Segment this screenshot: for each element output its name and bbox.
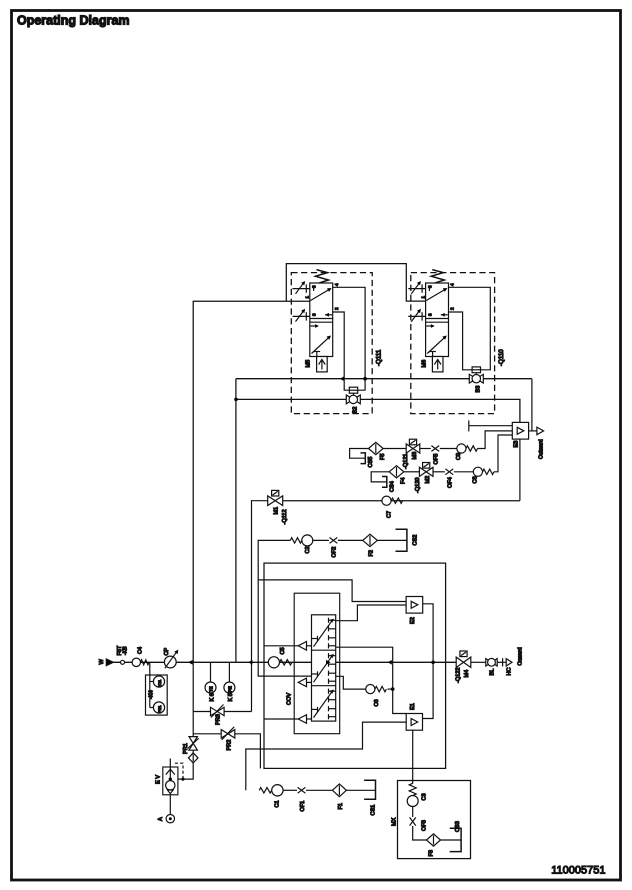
wire BL to HC [497,661,511,663]
exhaust E3 box [512,422,528,439]
pilot valve M6 body [426,283,449,357]
check valve C2 [290,538,302,543]
wire C2 row feed trunk [258,540,311,676]
junction C6 output [388,688,393,690]
M5 internals bottom cell [316,352,318,357]
wire C1 row to E1 feed [246,722,406,790]
solenoid valve M2 [423,463,430,469]
svg-text:PR2: PR2 [226,740,232,751]
svg-text:CS4: CS4 [389,481,395,492]
wire Q110 port 4 [448,287,490,370]
strainer FST -KB [121,660,125,664]
svg-text:F4: F4 [401,477,407,484]
orifice OF4 [445,469,453,475]
wire trunk buses to supply [235,379,237,663]
svg-text:OF3: OF3 [422,820,428,831]
wire OF1 to F1 [306,789,332,791]
svg-text:HC: HC [506,667,512,675]
wire spool to exhaust E2 second [336,605,406,621]
svg-text:5: 5 [427,285,432,288]
wire Q111 port 4 [333,287,365,390]
exhaust E2 box [406,597,423,614]
wire spool to C6 [336,676,366,689]
svg-text:BL: BL [489,669,495,676]
wire OF3 to F3 [413,826,427,840]
ball valve BL [486,659,497,666]
svg-text:Operating Diagram: Operating Diagram [17,14,130,28]
junction collector on supply [431,661,435,665]
svg-text:M5: M5 [306,360,312,368]
wire spool port to E1 top [336,647,407,713]
orifice OF1 [298,787,306,793]
svg-text:E V: E V [156,775,162,784]
wire C9 to E3 [478,431,513,449]
silencer CS2 [396,529,407,551]
svg-text:C9: C9 [456,453,462,460]
wire M4 to BL [471,661,486,663]
ball valve B2 bonnet [349,387,357,393]
svg-text:CS3: CS3 [455,821,461,832]
exhaust E1 box [406,714,422,731]
wire F1 to CS1 [346,789,375,791]
wire into EV [178,763,193,779]
valve unit -Q110 dashed enclosure [411,273,495,414]
wire OF5 to C9 [440,448,457,450]
svg-text:4: 4 [450,283,455,286]
M6 internals top cell [428,286,430,291]
M6 internals bottom cell [432,352,434,357]
svg-text:C1: C1 [274,800,280,807]
svg-text:3: 3 [427,313,432,316]
svg-text:OF2: OF2 [332,547,338,558]
port 5 throttle symbol Q111 [293,288,310,290]
svg-text:-KB: -KB [122,646,128,655]
svg-text:C8: C8 [472,476,478,483]
wire F5 to M3 [383,448,406,450]
port 3 throttle symbol Q111 [293,315,310,317]
svg-text:COV: COV [286,693,292,705]
wire C1 to OF1 [283,789,297,791]
wire PR2 to drain header [235,734,261,769]
transmitter box -K4 [146,675,168,715]
inlet W [106,659,113,666]
svg-text:CS1: CS1 [370,805,376,816]
EV pilot dashed line [175,763,183,777]
wire M3 to OF5 [420,448,431,450]
svg-text:F5: F5 [380,453,386,460]
filter F4 [389,466,404,478]
svg-text:TE1: TE1 [157,680,162,687]
svg-text:F3: F3 [428,850,434,857]
svg-text:110005751: 110005751 [551,865,605,877]
svg-text:OF1: OF1 [300,801,306,812]
solenoid valve M4 [460,651,467,657]
svg-text:PE1: PE1 [157,705,162,712]
sensor TE K6 [210,662,212,682]
svg-text:PR1: PR1 [183,743,189,754]
wire branch to exhaust E2 [258,580,406,602]
outward vent symbol [537,427,544,435]
check valve C5 [268,657,279,668]
M6 internals mid cell [426,318,449,320]
wire supply riser to pilot valves feed [193,301,310,662]
silencer CS4 [371,472,389,482]
wire C2 to OF2 [313,539,329,541]
wire bus A [236,378,532,380]
wire E1 to MX [412,730,414,783]
silencer CS1 [364,780,375,799]
svg-text:E1: E1 [410,703,416,710]
valve unit -Q111 dashed enclosure [291,273,372,414]
sensor PE1 [153,702,164,713]
wire Q110 port 2 [448,312,472,370]
wire vent header C7 line [283,500,520,502]
svg-text:M1: M1 [273,507,279,515]
filter F1 [332,784,346,797]
spring M6 valve [431,270,444,284]
wire M1 feed trunk [252,501,268,712]
pilot valve M5 body [310,283,333,357]
svg-text:C6: C6 [374,699,380,706]
filter F3 [427,834,441,846]
solenoid pilot M6 [432,357,443,372]
wire OF4 to C8 [454,471,474,473]
solenoid valve M1 [272,490,279,496]
svg-text:4: 4 [334,283,339,286]
svg-text:CS2: CS2 [413,535,419,546]
junction buses trunk [234,398,238,402]
check valve C6 [366,685,375,694]
filter F2 [363,534,378,546]
svg-text:-Q112: -Q112 [282,509,288,524]
flow arrow in spool supply [326,660,331,665]
svg-text:B3: B3 [476,386,482,393]
wire OF2 to F2 [338,539,363,541]
svg-text:-Q120: -Q120 [415,477,421,493]
regulator PR1 [189,737,197,751]
sensor PE K5 [228,662,230,682]
spring M5 valve [316,270,329,284]
svg-text:OF4: OF4 [448,477,454,488]
orifice OF3 [410,817,416,825]
svg-text:F1: F1 [338,803,344,810]
svg-text:1: 1 [420,296,425,299]
svg-text:K 5: K 5 [228,693,234,701]
svg-text:2: 2 [450,307,455,310]
filter F5 [369,442,384,454]
silencer CS3 [450,828,461,851]
svg-text:-Q111: -Q111 [376,349,383,366]
wire M2 to OF4 [433,471,445,473]
M5 internals top cell [313,286,315,291]
svg-text:Outward: Outward [539,439,545,459]
svg-text:1: 1 [305,296,310,299]
wire C3 to OF3 [412,807,414,818]
wire C8 to E3 [494,435,512,472]
wire F4 to M2 [404,471,420,473]
check valve C8 [473,467,482,476]
svg-text:C2: C2 [305,546,311,553]
svg-text:F2: F2 [368,550,374,557]
svg-text:CS5: CS5 [368,457,374,468]
svg-text:PE: PE [227,686,232,692]
COV pilot triangle bottom [264,718,298,720]
COV spool internals [314,619,334,646]
check valve C1 [259,788,272,793]
capped test port stub [468,420,470,431]
ball valve B3 [469,374,483,383]
svg-text:M4: M4 [464,670,470,678]
svg-text:2: 2 [334,307,339,310]
svg-text:M3: M3 [412,452,418,460]
wire bus B [236,399,520,422]
wire supply main line [113,661,456,663]
svg-text:-Q122: -Q122 [455,667,461,683]
wire F2 to CS2 [377,539,407,541]
junction port4 on bus A [363,377,367,381]
port A [166,815,174,823]
port 3 throttle symbol Q110 [408,315,425,317]
M5 internals mid cell [310,318,333,320]
svg-text:C3: C3 [422,793,428,800]
wire B3 to outward line [531,379,533,431]
COV pilot triangle middle [298,678,306,687]
check valve C4 [132,658,140,666]
silencer CS5 [350,449,369,459]
solenoid valve M3 [409,439,416,445]
wire E3 outward [529,430,537,432]
hose coupling HC [502,658,504,666]
wire E2 to collector [423,604,434,719]
filter on pilot branch [192,750,194,753]
svg-text:A: A [158,817,164,821]
svg-text:5: 5 [312,285,317,288]
svg-text:K 6: K 6 [209,693,215,701]
svg-text:C7: C7 [386,511,392,518]
port 5 throttle symbol Q110 [408,288,425,290]
svg-text:Onward: Onward [517,647,523,665]
COV inner valve box [294,593,340,734]
svg-text:B2: B2 [353,407,359,414]
COV pilot triangle top [264,645,298,647]
svg-text:E2: E2 [410,617,416,624]
svg-text:-Q110: -Q110 [498,349,505,366]
wire F3 to CS3 [441,839,462,841]
orifice OF2 [330,538,338,544]
svg-text:-K4: -K4 [149,690,155,699]
check valve C7 [382,496,391,505]
orifice OF5 [431,446,439,452]
wire Q111 port 2 [333,312,350,390]
svg-text:M6: M6 [421,360,427,368]
flow arrow on bus A [340,376,344,381]
svg-text:C4: C4 [137,647,143,654]
wire E3 bottom to vent header [519,439,521,501]
svg-text:PR3: PR3 [216,714,222,725]
check valve C9 [457,444,466,453]
flow arrow at riser junction [188,660,192,665]
flow arrow at M1 trunk junction [248,660,252,665]
COV spool body [312,615,336,721]
svg-text:3: 3 [312,313,317,316]
svg-text:C5: C5 [280,647,286,654]
solenoid pilot M5 [317,357,328,372]
wire feed branch to Q110 port 1 [286,264,425,302]
sensor TE1 [153,676,164,687]
supply trunk down [192,662,194,736]
regulator PR3 [193,711,210,713]
svg-text:E3: E3 [513,441,519,448]
pilot valve EV box [163,767,178,795]
ball valve B2 [346,395,360,404]
check valve C3 [409,783,416,795]
MX enclosure box [398,781,471,859]
svg-text:MX: MX [391,817,397,826]
svg-text:W: W [99,659,105,665]
regulator PR2 [193,733,221,735]
svg-text:M2: M2 [425,476,431,484]
regulator CP [164,656,176,668]
svg-text:CP: CP [164,647,170,655]
ball valve B3 bonnet [472,367,480,373]
svg-text:TE: TE [209,686,214,692]
COV outer enclosure box [264,563,446,768]
svg-text:-Q121: -Q121 [403,453,409,469]
svg-text:OF5: OF5 [434,454,440,465]
